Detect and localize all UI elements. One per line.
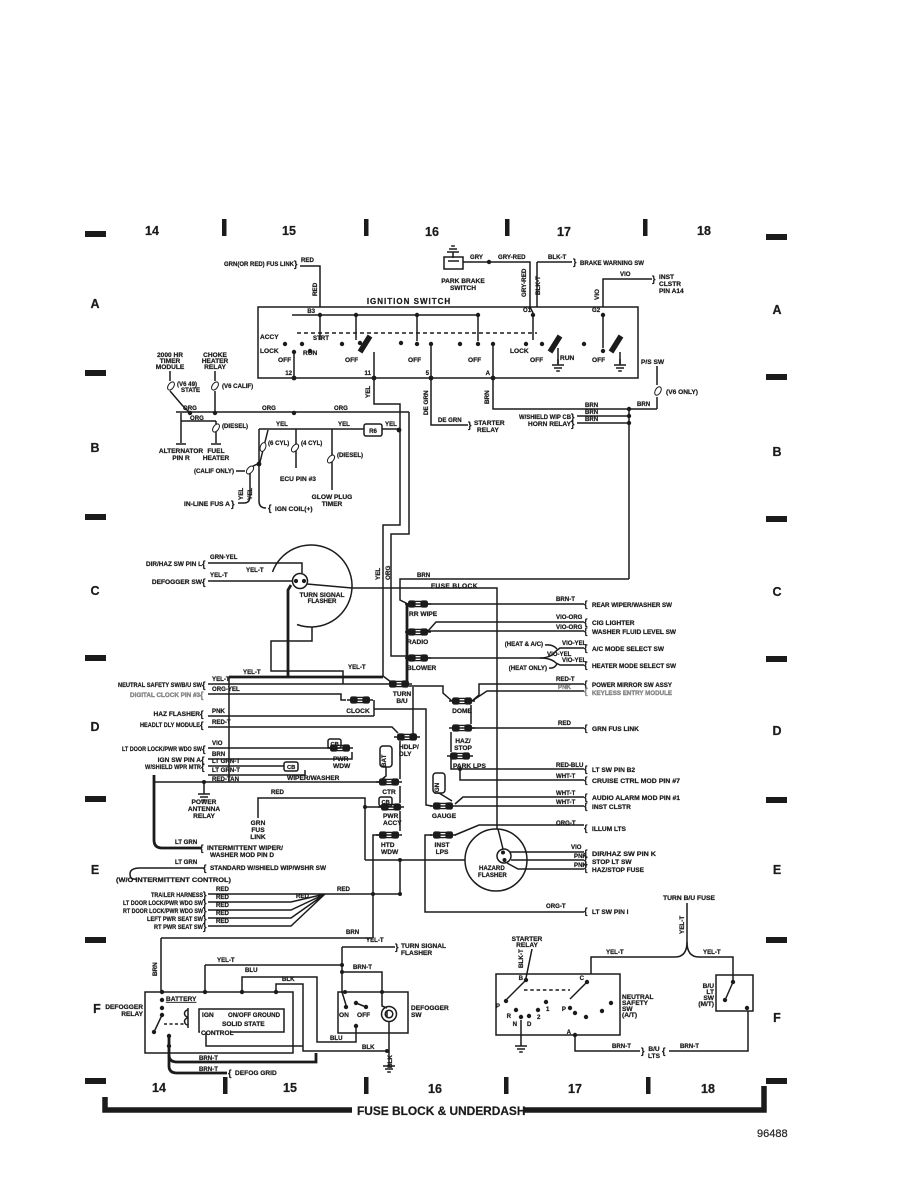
svg-text:DE GRN: DE GRN	[423, 390, 430, 415]
svg-text:HAZ/: HAZ/	[455, 738, 471, 745]
svg-text:TURN: TURN	[393, 691, 412, 698]
svg-text:}: }	[203, 922, 207, 932]
svg-text:11: 11	[365, 370, 372, 377]
svg-text:BRN-T: BRN-T	[556, 596, 575, 603]
svg-text:PNK: PNK	[558, 684, 571, 691]
svg-text:HORN RELAY: HORN RELAY	[528, 421, 572, 428]
svg-text:ORG: ORG	[183, 405, 197, 412]
svg-text:{: {	[200, 709, 204, 719]
svg-text:B: B	[772, 445, 781, 459]
svg-text:BRN: BRN	[152, 962, 159, 976]
svg-text:GRN-YEL: GRN-YEL	[210, 554, 238, 561]
svg-text:WASHER FLUID LEVEL SW: WASHER FLUID LEVEL SW	[592, 629, 677, 636]
svg-text:OFF: OFF	[468, 357, 481, 364]
svg-text:SWITCH: SWITCH	[450, 285, 476, 292]
svg-text:WHT-T: WHT-T	[556, 799, 576, 806]
svg-text:LT GRN: LT GRN	[175, 839, 197, 846]
svg-text:HAZ/STOP FUSE: HAZ/STOP FUSE	[592, 867, 645, 874]
svg-text:{: {	[200, 843, 204, 853]
svg-text:16: 16	[428, 1082, 442, 1096]
svg-text:RED: RED	[271, 789, 284, 796]
svg-text:HAZ FLASHER: HAZ FLASHER	[153, 711, 200, 718]
svg-text:DEFOGGER: DEFOGGER	[411, 1005, 449, 1012]
svg-text:TIMER: TIMER	[322, 501, 343, 508]
svg-text:BRN: BRN	[484, 390, 491, 404]
svg-text:DOME: DOME	[452, 708, 472, 715]
svg-text:(DIESEL): (DIESEL)	[222, 423, 248, 430]
svg-text:RED-T: RED-T	[212, 719, 231, 726]
svg-text:LTS: LTS	[648, 1053, 661, 1060]
svg-text:}: }	[652, 274, 656, 284]
svg-text:12: 12	[285, 370, 292, 377]
svg-text:RED: RED	[296, 893, 309, 900]
svg-text:{: {	[200, 690, 204, 700]
svg-text:2: 2	[537, 1014, 541, 1021]
svg-text:(V6 ONLY): (V6 ONLY)	[666, 389, 698, 396]
svg-text:}: }	[231, 499, 235, 509]
svg-text:YEL-T: YEL-T	[366, 937, 384, 944]
svg-text:FUS: FUS	[251, 827, 265, 834]
svg-text:YEL-T: YEL-T	[217, 957, 235, 964]
svg-text:BLK: BLK	[387, 1055, 394, 1068]
svg-text:HEATER MODE SELECT SW: HEATER MODE SELECT SW	[592, 663, 677, 670]
svg-text:RED: RED	[216, 894, 229, 901]
svg-text:W/SHIELD WPR MTR: W/SHIELD WPR MTR	[145, 764, 201, 771]
svg-text:RR WIPE: RR WIPE	[409, 611, 438, 618]
svg-text:{: {	[584, 906, 588, 916]
svg-text:LT GRN-T: LT GRN-T	[212, 758, 240, 765]
svg-text:RED: RED	[216, 910, 229, 917]
svg-text:{: {	[584, 775, 588, 785]
svg-text:P: P	[496, 1003, 500, 1010]
svg-text:A: A	[90, 297, 99, 311]
svg-text:B: B	[519, 975, 524, 982]
svg-text:WIPER/WASHER: WIPER/WASHER	[287, 775, 340, 782]
svg-text:LEFT PWR SEAT SW: LEFT PWR SEAT SW	[147, 916, 204, 923]
svg-text:IGNITION SWITCH: IGNITION SWITCH	[367, 297, 451, 306]
svg-text:STOP: STOP	[454, 745, 472, 752]
svg-text:LT SW PIN B2: LT SW PIN B2	[592, 767, 635, 774]
svg-text:VIO-YEL: VIO-YEL	[562, 657, 587, 664]
svg-text:YEL-T: YEL-T	[210, 572, 228, 579]
svg-text:{: {	[203, 863, 207, 873]
svg-text:CB: CB	[382, 800, 390, 806]
svg-text:ORG: ORG	[262, 405, 276, 412]
svg-text:FLASHER: FLASHER	[478, 872, 507, 879]
svg-text:BRN-T: BRN-T	[199, 1066, 218, 1073]
svg-text:D: D	[772, 724, 781, 738]
svg-text:NEUTRAL SAFETY SW/B/U SW: NEUTRAL SAFETY SW/B/U SW	[118, 682, 203, 689]
svg-text:(M/T): (M/T)	[698, 1001, 714, 1008]
svg-text:BRN: BRN	[417, 572, 430, 579]
svg-text:A: A	[486, 370, 491, 377]
svg-text:FLASHER: FLASHER	[401, 950, 432, 957]
svg-text:W/SHIELD WIP CB: W/SHIELD WIP CB	[519, 414, 571, 421]
svg-text:YEL-T: YEL-T	[703, 949, 721, 956]
svg-text:RED: RED	[216, 886, 229, 893]
svg-text:GRY-RED: GRY-RED	[521, 268, 528, 297]
svg-text:CRUISE CTRL MOD PIN #7: CRUISE CTRL MOD PIN #7	[592, 778, 680, 785]
svg-text:A: A	[567, 1029, 572, 1036]
svg-text:}: }	[468, 420, 472, 430]
svg-text:GRY-RED: GRY-RED	[498, 254, 526, 261]
svg-text:1: 1	[546, 1006, 550, 1013]
svg-text:LT SW PIN I: LT SW PIN I	[592, 909, 629, 916]
svg-text:{: {	[201, 762, 205, 772]
svg-text:INTERMITTENT WIPER/: INTERMITTENT WIPER/	[207, 845, 283, 852]
svg-text:ORG: ORG	[334, 405, 348, 412]
svg-text:ORG-T: ORG-T	[556, 820, 576, 827]
svg-text:R6: R6	[369, 428, 377, 435]
svg-text:(DIESEL): (DIESEL)	[337, 452, 363, 459]
svg-text:18: 18	[701, 1082, 715, 1096]
svg-text:TURN B/U FUSE: TURN B/U FUSE	[663, 895, 716, 902]
svg-text:{: {	[584, 599, 588, 609]
svg-text:LOCK: LOCK	[510, 348, 529, 355]
svg-text:CB: CB	[331, 742, 339, 748]
svg-text:ON: ON	[339, 1012, 349, 1019]
svg-text:RED: RED	[312, 282, 319, 296]
svg-text:{: {	[202, 577, 206, 587]
svg-text:14: 14	[145, 224, 159, 238]
svg-text:A: A	[772, 303, 781, 317]
svg-text:GAUGE: GAUGE	[432, 813, 457, 820]
svg-text:VIO-YEL: VIO-YEL	[562, 640, 587, 647]
svg-text:WHT-T: WHT-T	[556, 790, 576, 797]
svg-text:BLK-T: BLK-T	[518, 949, 525, 968]
svg-text:F: F	[773, 1011, 781, 1025]
svg-text:BLK: BLK	[282, 976, 295, 983]
svg-text:DIR/HAZ SW PIN L: DIR/HAZ SW PIN L	[146, 561, 202, 568]
svg-text:RED: RED	[216, 902, 229, 909]
svg-text:{: {	[202, 744, 206, 754]
svg-text:{: {	[200, 720, 204, 730]
svg-text:CLOCK: CLOCK	[346, 708, 370, 715]
svg-text:(A/T): (A/T)	[622, 1012, 637, 1019]
svg-text:A/C MODE SELECT SW: A/C MODE SELECT SW	[592, 646, 665, 653]
svg-text:HAZARD: HAZARD	[479, 865, 505, 872]
svg-text:16: 16	[425, 225, 439, 239]
svg-text:PIN A14: PIN A14	[659, 288, 684, 295]
svg-text:IGN: IGN	[202, 1012, 214, 1019]
svg-text:OFF: OFF	[345, 357, 358, 364]
svg-text:STOP LT SW: STOP LT SW	[592, 859, 632, 866]
svg-text:PWR: PWR	[383, 813, 399, 820]
svg-text:PNK: PNK	[212, 708, 225, 715]
svg-text:{: {	[584, 626, 588, 636]
svg-text:VIO: VIO	[594, 289, 601, 300]
svg-text:YEL-T: YEL-T	[606, 949, 624, 956]
svg-text:HTD: HTD	[381, 842, 395, 849]
svg-text:RELAY: RELAY	[121, 1011, 143, 1018]
svg-text:N: N	[513, 1021, 517, 1028]
svg-text:INST CLSTR: INST CLSTR	[592, 804, 631, 811]
svg-text:BRN: BRN	[346, 929, 359, 936]
svg-text:DEFOGGER: DEFOGGER	[105, 1004, 143, 1011]
svg-text:OFF: OFF	[357, 1012, 370, 1019]
svg-text:ON/OFF GROUND: ON/OFF GROUND	[228, 1012, 280, 1019]
svg-text:YEL: YEL	[247, 488, 254, 500]
svg-text:E: E	[91, 863, 99, 877]
svg-text:RELAY: RELAY	[193, 813, 215, 820]
svg-text:YEL: YEL	[375, 568, 382, 580]
svg-text:}: }	[571, 419, 575, 429]
svg-text:ORG-T: ORG-T	[546, 903, 566, 910]
svg-text:5: 5	[426, 370, 430, 377]
svg-text:VIO-ORG: VIO-ORG	[556, 624, 583, 631]
svg-text:LPS: LPS	[436, 849, 449, 856]
svg-text:ORG: ORG	[385, 566, 392, 580]
svg-text:IGN SW PIN A: IGN SW PIN A	[158, 757, 202, 764]
svg-text:HEATER: HEATER	[203, 455, 230, 462]
svg-text:{: {	[584, 686, 588, 696]
svg-text:YEL: YEL	[276, 421, 288, 428]
svg-text:VIO-ORG: VIO-ORG	[556, 614, 583, 621]
svg-text:GRN(OR RED) FUS LINK: GRN(OR RED) FUS LINK	[224, 261, 294, 268]
svg-text:18: 18	[697, 224, 711, 238]
svg-text:DIR/HAZ SW PIN K: DIR/HAZ SW PIN K	[592, 851, 656, 858]
svg-text:OFF: OFF	[408, 357, 421, 364]
svg-text:DIGITAL CLOCK PIN #3: DIGITAL CLOCK PIN #3	[130, 692, 200, 699]
svg-text:BRN: BRN	[585, 409, 598, 416]
svg-text:BRN-T: BRN-T	[612, 1043, 631, 1050]
svg-text:B/U: B/U	[648, 1046, 660, 1053]
svg-text:15: 15	[283, 1081, 297, 1095]
svg-text:WASHER MOD PIN D: WASHER MOD PIN D	[210, 852, 274, 859]
svg-text:YEL-T: YEL-T	[212, 676, 230, 683]
svg-text:BRN-T: BRN-T	[199, 1055, 218, 1062]
svg-text:17: 17	[568, 1082, 582, 1096]
svg-text:}: }	[573, 257, 577, 267]
svg-text:RELAY: RELAY	[516, 942, 538, 949]
svg-text:B: B	[90, 441, 99, 455]
svg-text:ECU PIN #3: ECU PIN #3	[280, 476, 316, 483]
svg-text:VIO: VIO	[620, 271, 631, 278]
svg-text:DLY: DLY	[399, 751, 412, 758]
svg-text:RELAY: RELAY	[204, 364, 226, 371]
svg-text:{: {	[584, 863, 588, 873]
svg-text:{: {	[228, 1068, 232, 1078]
svg-text:RED: RED	[216, 918, 229, 925]
svg-text:OFF: OFF	[592, 357, 605, 364]
svg-text:STATE: STATE	[181, 387, 200, 394]
svg-text:PARK BRAKE: PARK BRAKE	[441, 278, 485, 285]
svg-text:STRT: STRT	[313, 335, 329, 342]
svg-text:{: {	[584, 660, 588, 670]
svg-text:BLOWER: BLOWER	[407, 665, 437, 672]
svg-text:BRN: BRN	[637, 401, 650, 408]
svg-text:FUEL: FUEL	[207, 448, 224, 455]
svg-text:{: {	[584, 643, 588, 653]
svg-text:RED: RED	[301, 257, 314, 264]
svg-text:RELAY: RELAY	[477, 427, 499, 434]
svg-text:C: C	[772, 585, 781, 599]
svg-text:CIG LIGHTER: CIG LIGHTER	[592, 620, 635, 627]
svg-text:(6 CYL): (6 CYL)	[268, 440, 289, 447]
svg-text:G2: G2	[592, 307, 601, 314]
svg-text:17: 17	[557, 225, 571, 239]
svg-text:BRN: BRN	[212, 751, 225, 758]
svg-text:ILLUM LTS: ILLUM LTS	[592, 826, 627, 833]
svg-text:GLOW PLUG: GLOW PLUG	[312, 494, 353, 501]
svg-text:{: {	[584, 801, 588, 811]
svg-text:{: {	[202, 559, 206, 569]
svg-text:BRN: BRN	[585, 416, 598, 423]
svg-text:INST: INST	[434, 842, 449, 849]
svg-text:ORG-YEL: ORG-YEL	[212, 686, 240, 693]
svg-text:ANTENNA: ANTENNA	[188, 806, 220, 813]
svg-text:PIN R: PIN R	[172, 455, 190, 462]
svg-text:YEL-T: YEL-T	[348, 664, 366, 671]
svg-text:HEADLT DLY MODULE: HEADLT DLY MODULE	[140, 722, 201, 729]
svg-text:ACCY: ACCY	[260, 334, 279, 341]
svg-text:(CALIF ONLY): (CALIF ONLY)	[194, 468, 234, 475]
svg-text:BRAKE WARNING SW: BRAKE WARNING SW	[580, 260, 645, 267]
svg-text:DE GRN: DE GRN	[438, 417, 462, 424]
svg-text:LT GRN-T: LT GRN-T	[212, 767, 240, 774]
svg-text:BLU: BLU	[245, 967, 258, 974]
svg-text:TURN SIGNAL: TURN SIGNAL	[401, 943, 446, 950]
svg-text:{: {	[268, 503, 272, 513]
svg-text:LT GRN: LT GRN	[175, 859, 197, 866]
svg-text:OFF: OFF	[530, 357, 543, 364]
svg-text:B3: B3	[307, 308, 315, 315]
svg-text:RED-BLU: RED-BLU	[556, 762, 584, 769]
svg-text:E: E	[773, 863, 781, 877]
svg-text:RADIO: RADIO	[407, 639, 428, 646]
svg-text:OFF: OFF	[278, 357, 291, 364]
svg-text:96488: 96488	[757, 1128, 788, 1140]
svg-text:(HEAT ONLY): (HEAT ONLY)	[509, 665, 547, 672]
svg-text:STANDARD W/SHIELD WIP/WSHR SW: STANDARD W/SHIELD WIP/WSHR SW	[210, 865, 327, 872]
svg-text:YEL: YEL	[385, 421, 397, 428]
svg-text:DEFOGGER SW: DEFOGGER SW	[152, 579, 203, 586]
svg-text:D: D	[90, 720, 99, 734]
svg-text:(HEAT & A/C): (HEAT & A/C)	[505, 641, 543, 648]
svg-text:BRN-T: BRN-T	[353, 964, 372, 971]
svg-text:D: D	[527, 1021, 532, 1028]
svg-text:VIO: VIO	[571, 844, 582, 851]
svg-text:GRY: GRY	[470, 254, 483, 261]
svg-text:}: }	[395, 942, 399, 952]
svg-text:FUSE BLOCK: FUSE BLOCK	[431, 583, 478, 590]
svg-text:MODULE: MODULE	[156, 364, 185, 371]
svg-text:P: P	[562, 1006, 566, 1013]
svg-text:}: }	[294, 259, 298, 269]
svg-text:YEL-T: YEL-T	[243, 669, 261, 676]
svg-text:R: R	[507, 1013, 512, 1020]
svg-text:{: {	[584, 723, 588, 733]
svg-text:YEL: YEL	[238, 488, 245, 500]
svg-text:KEYLESS ENTRY MODULE: KEYLESS ENTRY MODULE	[592, 690, 673, 697]
svg-text:REAR WIPER/WASHER SW: REAR WIPER/WASHER SW	[592, 602, 673, 609]
svg-text:SOLID STATE: SOLID STATE	[222, 1021, 265, 1028]
svg-text:(4 CYL): (4 CYL)	[301, 440, 322, 447]
svg-text:BLK-T: BLK-T	[535, 276, 542, 295]
svg-text:VIO: VIO	[212, 740, 223, 747]
svg-text:PWR: PWR	[333, 756, 349, 763]
svg-text:AUDIO ALARM MOD PIN #1: AUDIO ALARM MOD PIN #1	[592, 795, 680, 802]
svg-text:POWER: POWER	[192, 799, 217, 806]
svg-text:RT DOOR LOCK/PWR WDO SW: RT DOOR LOCK/PWR WDO SW	[123, 908, 204, 915]
svg-text:ALTERNATOR: ALTERNATOR	[159, 448, 204, 455]
svg-text:DEFOG GRID: DEFOG GRID	[235, 1070, 277, 1077]
svg-text:BAT: BAT	[381, 754, 388, 767]
svg-text:RED: RED	[558, 720, 571, 727]
svg-text:WHT-T: WHT-T	[556, 773, 576, 780]
svg-text:{: {	[202, 680, 206, 690]
svg-text:CB: CB	[287, 765, 295, 771]
svg-text:}: }	[641, 1046, 645, 1056]
svg-text:CLSTR: CLSTR	[659, 281, 681, 288]
svg-text:BLU: BLU	[330, 1035, 343, 1042]
svg-text:LOCK: LOCK	[260, 348, 279, 355]
svg-text:BATTERY: BATTERY	[166, 996, 197, 1003]
svg-text:RED: RED	[337, 886, 350, 893]
svg-text:IN-LINE FUS A: IN-LINE FUS A	[184, 501, 230, 508]
svg-text:FUSE BLOCK & UNDERDASH: FUSE BLOCK & UNDERDASH	[357, 1104, 525, 1118]
svg-text:14: 14	[152, 1081, 166, 1095]
svg-text:F: F	[93, 1002, 101, 1016]
svg-text:CTR: CTR	[382, 789, 396, 796]
svg-text:GRN FUS LINK: GRN FUS LINK	[592, 726, 639, 733]
svg-text:IGN COIL(+): IGN COIL(+)	[275, 506, 313, 513]
svg-text:IGN: IGN	[434, 782, 441, 794]
svg-text:B/U: B/U	[396, 698, 408, 705]
svg-text:BRN: BRN	[585, 402, 598, 409]
svg-text:RUN: RUN	[560, 355, 575, 362]
svg-text:INST: INST	[659, 274, 674, 281]
svg-text:FLASHER: FLASHER	[308, 598, 337, 605]
svg-text:BRN-T: BRN-T	[680, 1043, 699, 1050]
svg-text:(V6 CALIF): (V6 CALIF)	[222, 383, 253, 390]
svg-text:{: {	[662, 1046, 666, 1056]
svg-text:LT DOOR LOCK/PWR WDO SW: LT DOOR LOCK/PWR WDO SW	[122, 746, 203, 753]
svg-text:GRN: GRN	[251, 820, 266, 827]
svg-text:15: 15	[282, 224, 296, 238]
svg-text:TRAILER HARNESS: TRAILER HARNESS	[151, 892, 203, 899]
svg-text:SW: SW	[411, 1012, 422, 1019]
svg-text:{: {	[584, 764, 588, 774]
svg-text:BLK-T: BLK-T	[548, 254, 567, 261]
svg-text:C: C	[90, 584, 99, 598]
svg-text:BLK: BLK	[362, 1044, 375, 1051]
svg-text:YEL: YEL	[338, 421, 350, 428]
svg-text:RT PWR SEAT SW: RT PWR SEAT SW	[154, 924, 204, 931]
svg-text:P/S SW: P/S SW	[641, 359, 665, 366]
svg-text:YEL: YEL	[365, 386, 372, 398]
svg-text:LT DOOR LOCK/PWR WDO SW: LT DOOR LOCK/PWR WDO SW	[123, 900, 204, 907]
svg-text:WDW: WDW	[333, 763, 351, 770]
svg-text:RED-T: RED-T	[556, 676, 575, 683]
svg-text:STARTER: STARTER	[474, 420, 505, 427]
svg-text:YEL-T: YEL-T	[246, 567, 264, 574]
svg-text:WDW: WDW	[381, 849, 399, 856]
svg-text:POWER MIRROR SW ASSY: POWER MIRROR SW ASSY	[592, 682, 673, 689]
svg-text:YEL-T: YEL-T	[679, 916, 686, 934]
svg-text:HDLP/: HDLP/	[399, 744, 419, 751]
svg-text:(W/O INTERMITTENT CONTROL): (W/O INTERMITTENT CONTROL)	[116, 877, 231, 884]
svg-text:{: {	[584, 823, 588, 833]
svg-text:C: C	[580, 975, 585, 982]
svg-text:LINK: LINK	[250, 834, 266, 841]
